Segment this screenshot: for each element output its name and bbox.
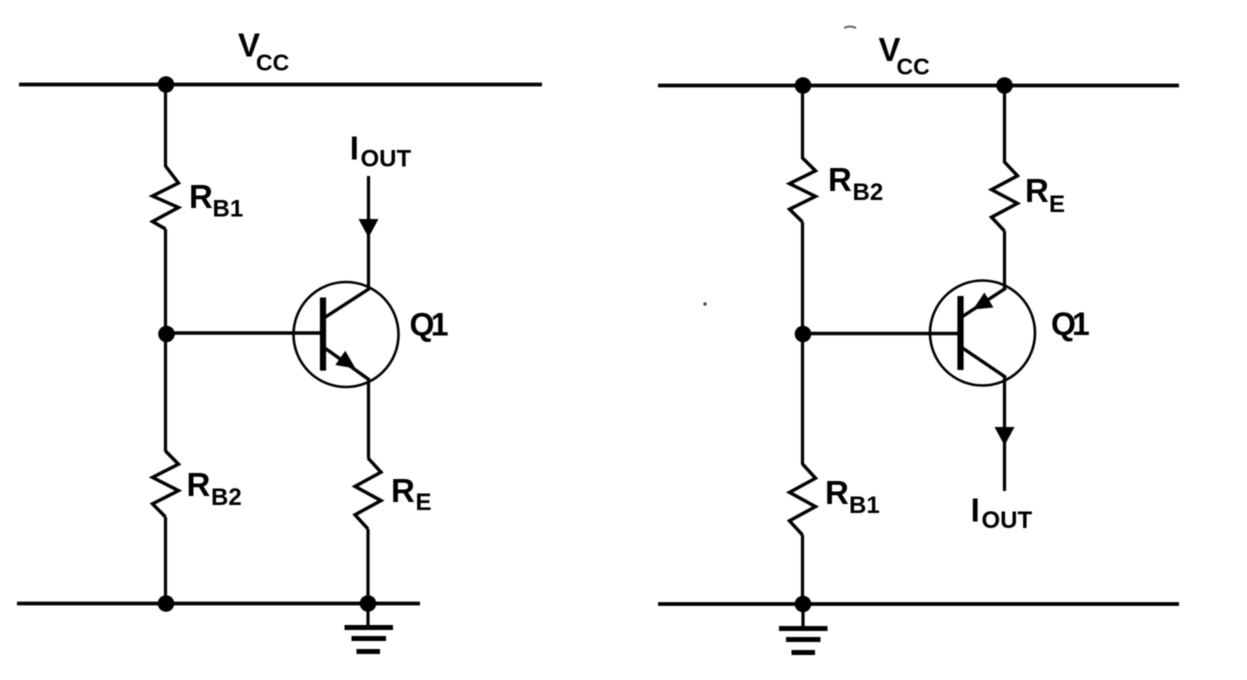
wire Q1 collector up (Iout lead, left) [367,176,370,289]
current label IOUT (left) [350,130,412,173]
wire ground rail (left circuit bottom) [17,602,420,606]
wire RB1 to ground rail (right) [801,535,804,604]
current label IOUT (right) [971,492,1033,535]
node: RE / ground rail junction (left) [360,595,377,612]
svg-text:OUT: OUT [361,146,412,173]
wire Vcc to RB1 [164,85,167,168]
resistor RB1 (right circuit) [790,464,816,535]
svg-text:B2: B2 [853,179,884,206]
svg-text:I: I [350,130,359,167]
label Q1 (right) [1051,306,1090,342]
ground (right circuit) [779,604,828,653]
node: Vcc / RB1 junction (left) [158,76,175,93]
node: base divider junction (left) [158,326,175,343]
ground (left circuit) [345,604,394,652]
wire RB1 to base node [164,229,167,452]
transistor Q1 (right, PNP) [930,281,1035,386]
wire Vcc to RB2 (right) [801,86,804,160]
svg-text:1: 1 [431,307,449,343]
wire Q1 emitter to RE (left) [367,380,370,458]
svg-text:1: 1 [1072,306,1090,342]
svg-text:I: I [971,492,980,529]
node: Vcc / RE junction (right) [996,77,1013,94]
resistor RE (left circuit) [355,458,381,529]
node: RB2 / ground rail junction (left) [158,595,175,612]
resistor RE (right circuit) [992,162,1018,231]
current arrow Iout (left, pointing down) [359,219,379,238]
node: Vcc / RB2 junction (right) [795,77,812,94]
resistor RB2 (left circuit) [153,451,179,517]
value label RE (left) [391,472,432,516]
svg-text:B2: B2 [211,484,242,511]
svg-text:R: R [391,472,415,509]
value label RB2 (right) [828,161,883,206]
resistor RB1 (left circuit) [153,166,179,229]
node: RB1 / ground rail junction (right) [795,596,812,613]
svg-text:R: R [189,178,213,215]
current arrow Iout (right, pointing down) [995,427,1015,446]
svg-text:R: R [1025,172,1049,209]
svg-text:B1: B1 [213,196,244,223]
svg-text:CC: CC [256,49,289,75]
svg-text:E: E [416,489,432,516]
value label RE (right) [1025,172,1065,218]
wire ground rail (right circuit bottom) [658,602,1179,606]
wire Q1 collector down (Iout lead, right) [1003,378,1006,492]
value label RB1 (left) [189,178,243,223]
svg-text:R: R [825,474,849,511]
value label RB1 (right) [825,474,880,519]
wire RE to Q1 emitter (right) [1003,231,1006,289]
artifact: small stray dot [703,302,706,305]
svg-text:R: R [187,466,211,503]
net label VCC (right) [879,31,930,79]
wire RB2 to ground rail [164,517,167,604]
node: base divider junction (right) [795,326,812,343]
svg-text:CC: CC [897,54,930,80]
value label RB2 (left) [187,466,242,511]
wire RE to ground rail (left) [366,529,369,604]
svg-text:OUT: OUT [982,507,1033,534]
svg-text:B1: B1 [849,492,880,519]
svg-text:E: E [1049,191,1065,218]
artifact: faint gray arc at top [844,27,856,29]
svg-text:R: R [828,161,852,198]
wire Vcc rail (right circuit top) [658,84,1179,88]
transistor Q1 (left, NPN) [294,282,399,387]
wire Vcc rail (left circuit top) [19,83,542,87]
net label VCC (left) [238,27,289,76]
resistor RB2 (right circuit) [790,158,816,222]
wire RB2 to base node (right) [801,222,804,465]
wire base node to Q1 base [166,331,324,335]
label Q1 (left) [410,307,449,343]
wire Vcc to RE (right) [1003,86,1006,164]
wire base node to Q1 base (right) [803,332,961,336]
